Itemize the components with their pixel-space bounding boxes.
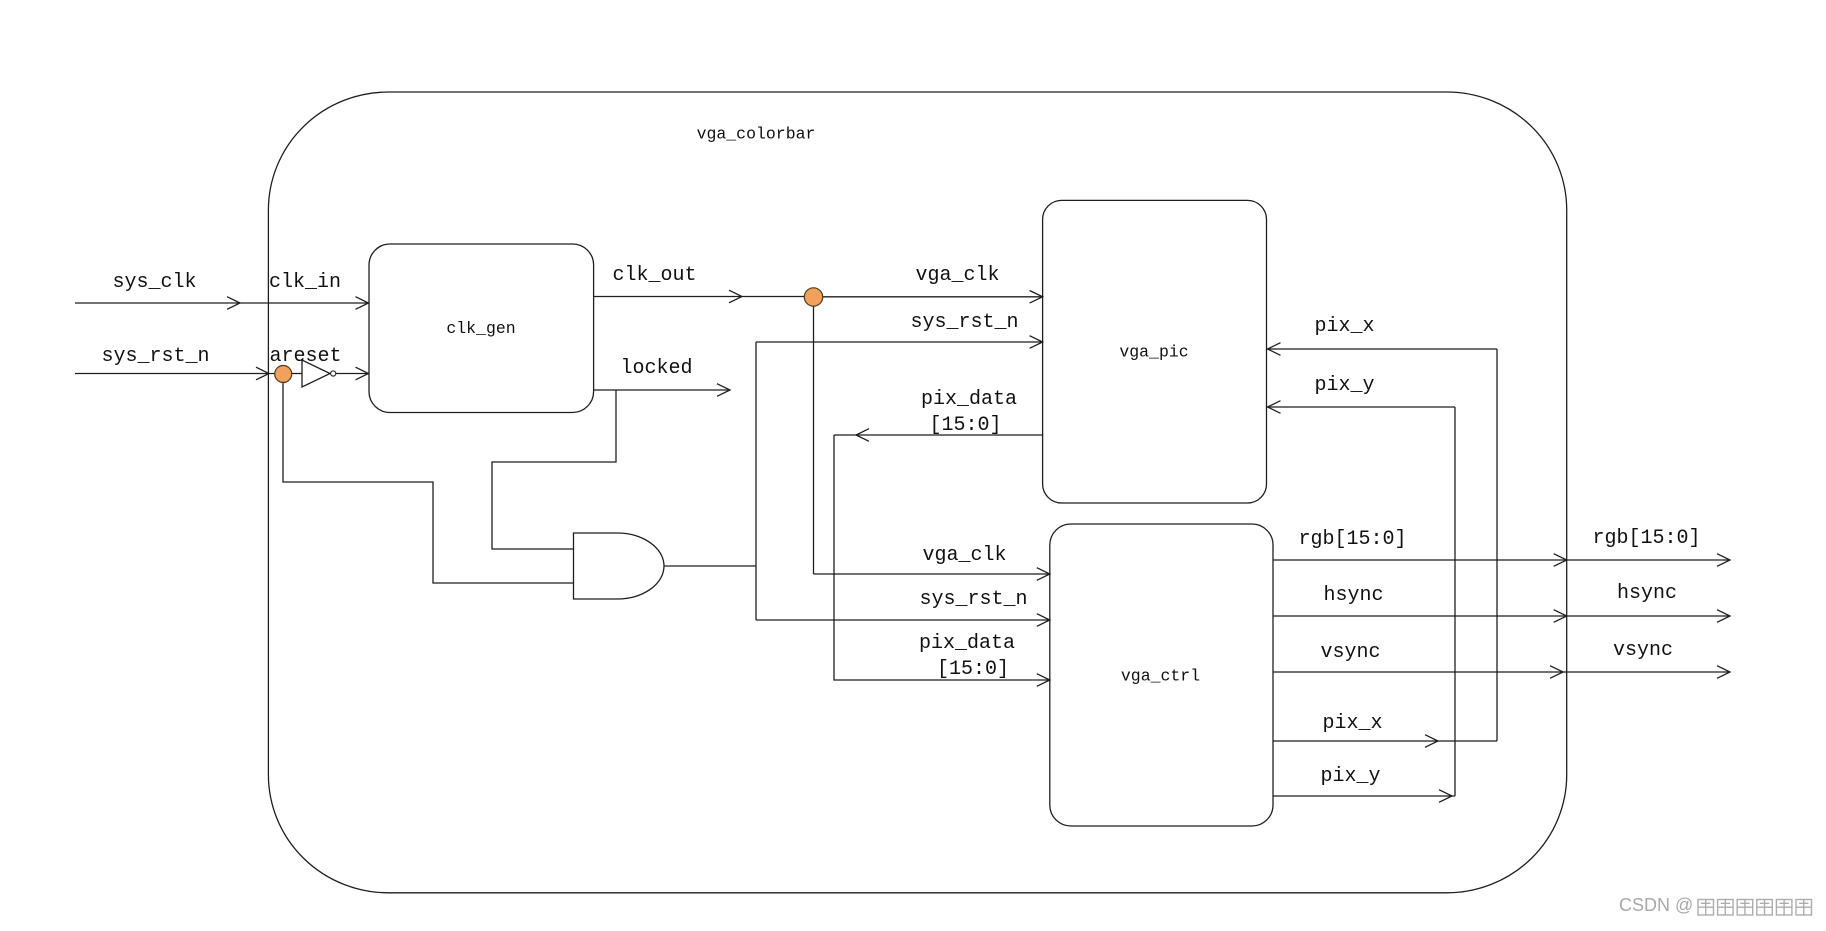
svg-text:hsync: hsync [1323,584,1383,607]
svg-text:locked: locked [620,357,692,380]
svg-text:CSDN @: CSDN @ [1619,895,1693,915]
svg-text:vsync: vsync [1320,641,1380,664]
svg-text:pix_data: pix_data [921,388,1017,411]
svg-text:clk_in: clk_in [269,271,341,294]
svg-text:clk_gen: clk_gen [446,319,515,338]
svg-text:areset: areset [269,345,341,368]
svg-text:vga_colorbar: vga_colorbar [697,125,816,144]
svg-text:[15:0]: [15:0] [929,414,1001,437]
svg-text:pix_y: pix_y [1320,765,1380,788]
svg-text:sys_rst_n: sys_rst_n [919,588,1027,611]
svg-text:rgb[15:0]: rgb[15:0] [1592,527,1700,550]
svg-text:vsync: vsync [1613,639,1673,662]
svg-text:vga_clk: vga_clk [922,544,1006,567]
svg-text:[15:0]: [15:0] [937,658,1009,681]
svg-text:sys_rst_n: sys_rst_n [101,345,209,368]
svg-text:hsync: hsync [1617,582,1677,605]
svg-text:clk_out: clk_out [612,264,696,287]
svg-text:pix_y: pix_y [1314,374,1374,397]
svg-text:pix_x: pix_x [1322,712,1382,735]
svg-text:sys_clk: sys_clk [112,271,196,294]
svg-text:sys_rst_n: sys_rst_n [910,311,1018,334]
svg-text:vga_ctrl: vga_ctrl [1121,667,1200,686]
svg-text:vga_pic: vga_pic [1119,343,1188,362]
svg-text:pix_x: pix_x [1314,315,1374,338]
svg-text:rgb[15:0]: rgb[15:0] [1298,528,1406,551]
svg-text:vga_clk: vga_clk [915,264,999,287]
svg-text:pix_data: pix_data [919,632,1015,655]
